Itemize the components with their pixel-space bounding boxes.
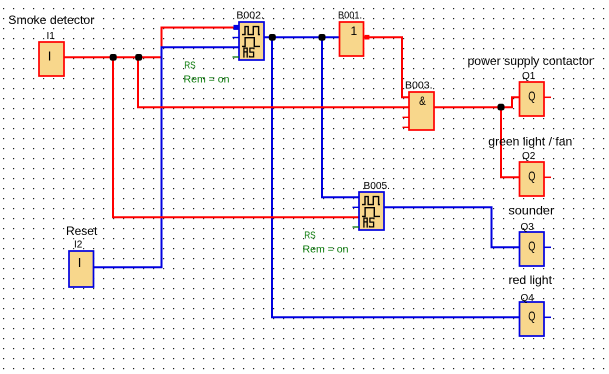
svg-text:RS: RS (184, 61, 196, 72)
svg-text:Q2: Q2 (522, 151, 536, 162)
junction at B003 output (498, 104, 505, 111)
B002 Par pin stub (233, 56, 240, 58)
wire I1 output elbow up to B002 Trg input (64, 28, 234, 58)
wire B005 output to Q3 input (384, 207, 520, 247)
wire B001 input branch down to B005 Trg input (322, 37, 359, 197)
B001 output connector (365, 35, 370, 40)
svg-text:I: I (48, 49, 52, 64)
svg-text:RS: RS (304, 231, 316, 242)
output block Q2 (520, 162, 545, 196)
junction at I1 wire x=138 (135, 54, 142, 61)
B005 Par pin stub (353, 226, 360, 228)
svg-text:Q: Q (528, 309, 535, 324)
pulse relay B005 (359, 192, 384, 230)
AND block B003 (409, 92, 434, 130)
svg-text:B001.: B001. (338, 10, 362, 21)
Q3 output stub (544, 246, 551, 248)
wire I1 branch down to B005 R input (113, 57, 359, 217)
svg-text:red light: red light (509, 273, 553, 287)
B003 input 4 stub (403, 126, 410, 128)
OR block B001 (340, 22, 364, 56)
junction at I1 wire x=113 (110, 54, 117, 61)
B002 Trg pin connector (234, 25, 240, 30)
Q2 output stub (544, 176, 551, 178)
wire B002 output branch down to Q4 input (272, 37, 520, 317)
svg-text:I1: I1 (47, 31, 56, 42)
svg-text:1: 1 (350, 24, 357, 38)
svg-text:green light / fan: green light / fan (488, 134, 572, 148)
svg-text:sounder: sounder (508, 204, 554, 218)
svg-text:&: & (419, 94, 426, 108)
input block I2 (69, 251, 94, 287)
B003 input 3 stub (403, 116, 410, 118)
svg-text:Smoke detector: Smoke detector (8, 13, 94, 27)
svg-text:Q3: Q3 (521, 222, 535, 233)
Q1 output stub (544, 96, 551, 98)
output block Q4 (520, 302, 545, 336)
junction at B002 output (269, 34, 276, 41)
wire B003 output to Q1 input (434, 97, 520, 107)
svg-text:power supply contactor: power supply contactor (468, 54, 594, 68)
svg-text:I: I (78, 255, 82, 270)
svg-text:Q: Q (528, 89, 535, 104)
svg-text:Q: Q (528, 169, 535, 184)
svg-text:Rem = on: Rem = on (303, 245, 349, 256)
B002 S pin stub (233, 37, 240, 39)
output block Q1 (520, 82, 545, 116)
wire B003 output branch down to Q2 input (501, 107, 520, 177)
svg-text:I2: I2 (74, 240, 83, 251)
svg-text:B005.: B005. (364, 181, 391, 192)
wire B002 output to B001 input (264, 36, 340, 38)
svg-text:Q: Q (528, 239, 535, 254)
svg-text:B003.: B003. (405, 80, 433, 91)
B005 S pin stub (353, 206, 360, 208)
Q4 output stub (544, 316, 551, 318)
svg-text:Reset: Reset (66, 224, 98, 238)
svg-text:Q4: Q4 (521, 293, 535, 304)
svg-text:B002.: B002. (236, 11, 264, 22)
wire I1 branch down to B003 input 2 (138, 57, 409, 107)
junction at B001 input (319, 34, 326, 41)
svg-text:Q1: Q1 (522, 71, 536, 82)
pulse relay B002 (239, 22, 264, 60)
svg-text:Rem = on: Rem = on (184, 75, 230, 86)
input block I1 (39, 42, 64, 76)
wire I2 output riser to B002 R input (94, 47, 240, 267)
wire B001 output down to B003 input 1 (364, 37, 410, 97)
output block Q3 (520, 232, 545, 266)
